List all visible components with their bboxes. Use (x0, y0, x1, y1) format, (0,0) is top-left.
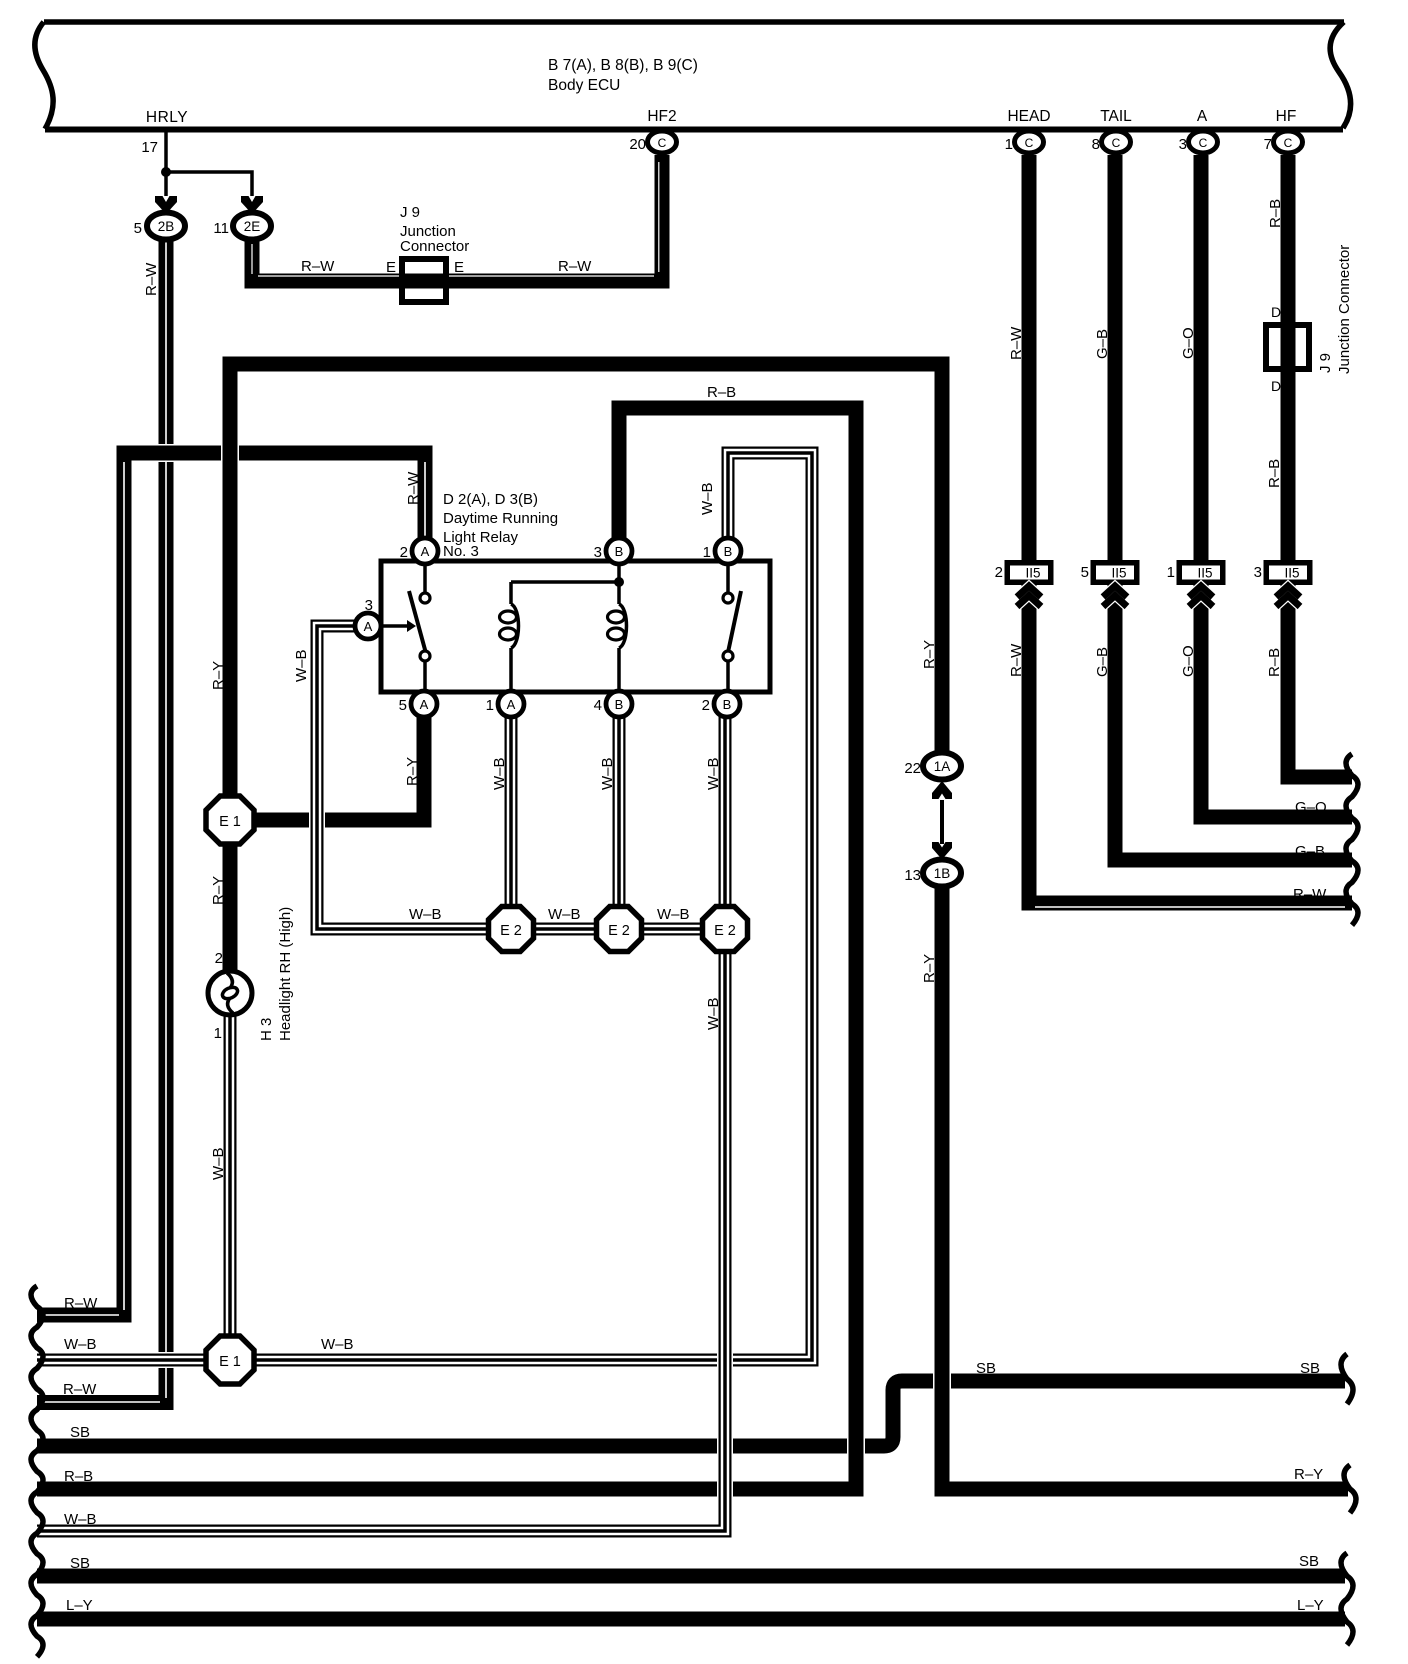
svg-text:G–B: G–B (1094, 647, 1111, 677)
svg-text:R–W: R–W (1293, 886, 1327, 903)
relay left switch wire to 5A (423, 660, 427, 690)
wire SB long bus with jog (37, 1381, 1345, 1446)
svg-text:TAIL: TAIL (1100, 108, 1132, 125)
relay pin 1B (715, 538, 741, 564)
svg-text:E 1: E 1 (219, 1354, 241, 1370)
svg-text:G–B: G–B (1094, 329, 1111, 359)
svg-text:1A: 1A (934, 759, 951, 774)
wire R-W relay pin 2A to far-left vertical (37, 453, 425, 1315)
wire R-Y relay pin 5A to E1 (252, 716, 424, 820)
wire W-B E2 down to left stub (37, 951, 725, 1531)
svg-text:8: 8 (1092, 136, 1100, 153)
svg-text:W–B: W–B (321, 1336, 354, 1353)
wire R-W HEAD lower to right stub (1029, 585, 1352, 903)
relay coil L2 (617, 582, 621, 604)
arrow into 1B (932, 842, 952, 860)
pin circle C at x=1288 (1274, 131, 1303, 153)
svg-text:1: 1 (486, 697, 494, 714)
svg-text:D 2(A), D 3(B): D 2(A), D 3(B) (443, 491, 538, 508)
svg-text:R–Y: R–Y (921, 954, 938, 983)
wire L-Y bottom full width (37, 1610, 1345, 1628)
svg-text:B: B (724, 544, 733, 559)
svg-text:R–W: R–W (301, 258, 335, 275)
junction connector J9 box (HF) (1263, 322, 1312, 372)
connector oval 2B (147, 213, 185, 240)
svg-text:SB: SB (70, 1555, 90, 1572)
relay left switch wire from 2A (423, 563, 427, 592)
arrow into 2B (155, 196, 177, 214)
svg-text:R–B: R–B (64, 1468, 93, 1485)
relay pin 4B (606, 691, 632, 717)
relay 3B interior wire (617, 563, 621, 582)
svg-text:17: 17 (141, 139, 158, 156)
svg-text:W–B: W–B (657, 906, 690, 923)
wire R-Y 1B to right stub (942, 880, 1348, 1489)
svg-text:R–B: R–B (1266, 459, 1283, 488)
svg-text:R–Y: R–Y (210, 876, 227, 905)
svg-text:E: E (454, 259, 464, 276)
svg-text:W–B: W–B (705, 757, 722, 790)
ground connector E1 (lower) (206, 1336, 254, 1384)
relay pin 2B (714, 691, 740, 717)
junction connector J9 box (399, 256, 449, 305)
arrow into II5 #1 (1017, 586, 1041, 597)
svg-text:3: 3 (1179, 136, 1187, 153)
svg-text:W–B: W–B (64, 1511, 97, 1528)
wire R-W from 2B down to left stub (37, 238, 166, 1403)
relay coil top link (511, 580, 619, 584)
svg-text:W–B: W–B (705, 997, 722, 1030)
connector oval 2E (233, 213, 271, 240)
svg-text:E 2: E 2 (714, 923, 736, 939)
svg-text:SB: SB (1300, 1360, 1320, 1377)
ground connector E1 (upper) (206, 796, 254, 844)
svg-text:J 9: J 9 (400, 204, 420, 221)
page edge squiggle right (SB) (1341, 1354, 1353, 1404)
svg-text:2E: 2E (244, 219, 261, 234)
svg-text:W–B: W–B (699, 482, 716, 515)
svg-text:B: B (723, 697, 732, 712)
wire R-W 2E to J9 to HF2 (252, 155, 662, 281)
wire W-B relay 2B to E2 (719, 716, 732, 907)
svg-text:A: A (364, 619, 373, 634)
relay pin 3B (606, 538, 632, 564)
svg-text:11: 11 (213, 220, 229, 237)
wire SB bottom full width (37, 1567, 1345, 1585)
wire HRLY pin 17 stub (164, 132, 168, 172)
wire R-Y top loop E1 to 1A (230, 364, 942, 818)
svg-text:D: D (1271, 378, 1281, 394)
connector II5 box #4 (1264, 560, 1313, 585)
svg-text:H 3: H 3 (258, 1018, 275, 1041)
arrow into II5 #2 (1103, 586, 1127, 597)
svg-text:SB: SB (70, 1424, 90, 1441)
svg-text:II5: II5 (1284, 566, 1299, 581)
svg-text:J 9: J 9 (1317, 353, 1334, 373)
svg-text:Junction Connector: Junction Connector (1336, 245, 1353, 374)
svg-text:R–W: R–W (143, 262, 160, 296)
svg-text:L–Y: L–Y (66, 1597, 93, 1614)
svg-text:E 2: E 2 (608, 923, 630, 939)
svg-text:HRLY: HRLY (146, 109, 188, 126)
svg-text:R–Y: R–Y (1294, 1466, 1323, 1483)
svg-text:II5: II5 (1197, 566, 1212, 581)
lamp H3 headlight RH high (208, 971, 252, 1015)
svg-text:3: 3 (365, 597, 373, 614)
svg-text:7: 7 (1264, 136, 1272, 153)
svg-text:II5: II5 (1111, 566, 1126, 581)
svg-text:5: 5 (399, 697, 407, 714)
pin circle C at x=1029 (1015, 131, 1044, 153)
connector II5 box #2 (1091, 560, 1140, 585)
svg-text:1: 1 (214, 1025, 222, 1042)
relay right switch wire to 2B (726, 660, 730, 690)
svg-text:22: 22 (904, 760, 921, 777)
page edge squiggle right (SB/L-Y) (1341, 1553, 1353, 1645)
page edge squiggle bottom-left (31, 1286, 43, 1657)
relay right switch blade (727, 591, 741, 657)
svg-text:B 7(A), B 8(B), B 9(C): B 7(A), B 8(B), B 9(C) (548, 57, 698, 74)
svg-text:A: A (420, 697, 429, 712)
relay right switch top contact (723, 593, 733, 603)
svg-text:1: 1 (703, 544, 711, 561)
svg-text:4: 4 (594, 697, 602, 714)
svg-text:G–O: G–O (1295, 799, 1327, 816)
svg-text:SB: SB (976, 1360, 996, 1377)
svg-text:R–W: R–W (1008, 326, 1025, 360)
svg-text:G–O: G–O (1180, 327, 1197, 359)
wire down to 2B arrow (164, 172, 168, 196)
svg-text:W–B: W–B (409, 906, 442, 923)
svg-text:W–B: W–B (548, 906, 581, 923)
svg-text:2: 2 (995, 564, 1003, 581)
wire link 1A-1B (940, 800, 944, 844)
wire R-Y E1 to H3 headlight (221, 840, 239, 972)
svg-text:W–B: W–B (64, 1336, 97, 1353)
svg-text:Connector: Connector (400, 238, 469, 255)
svg-text:HF: HF (1276, 108, 1297, 125)
wire G-B TAIL lower to right stub (1115, 585, 1352, 860)
relay left switch top contact (420, 593, 430, 603)
page edge squiggle right (R-Y) (1344, 1465, 1356, 1513)
svg-text:C: C (1112, 136, 1121, 150)
wire W-B relay 4B to E2 (613, 716, 626, 907)
svg-text:R–W: R–W (64, 1295, 98, 1312)
junction dot node HRLY (161, 167, 171, 177)
pin circle C at x=662 (648, 131, 677, 153)
relay left switch blade (409, 591, 427, 657)
svg-text:20: 20 (629, 136, 646, 153)
svg-text:5: 5 (1081, 564, 1089, 581)
svg-text:13: 13 (904, 867, 921, 884)
wire branch to 2E (166, 172, 252, 196)
svg-text:W–B: W–B (210, 1147, 227, 1180)
svg-text:G–O: G–O (1180, 645, 1197, 677)
relay pin 3A (355, 613, 381, 639)
relay pin 1A (498, 691, 524, 717)
wire W-B H3 to E1 ground (222, 1014, 238, 1338)
svg-text:Headlight RH (High): Headlight RH (High) (277, 907, 294, 1041)
svg-text:1B: 1B (934, 866, 951, 881)
svg-text:C: C (1199, 136, 1208, 150)
svg-text:2: 2 (702, 697, 710, 714)
relay junction dot coils (614, 577, 624, 587)
wire W-B relay 1A to E2 (505, 716, 518, 907)
wire R-B HF lower to right stub (1288, 585, 1352, 777)
svg-text:II5: II5 (1025, 566, 1040, 581)
svg-text:R–Y: R–Y (921, 640, 938, 669)
svg-text:HEAD: HEAD (1007, 108, 1050, 125)
wire R-W HEAD column upper (1020, 155, 1038, 562)
relay box Daytime Running Light Relay No.3 (381, 561, 770, 692)
svg-text:2B: 2B (158, 219, 175, 234)
connector II5 box #1 (1005, 560, 1054, 585)
svg-text:2: 2 (215, 950, 223, 967)
svg-text:3: 3 (594, 544, 602, 561)
svg-text:B: B (615, 544, 624, 559)
ground connector E2 (right) (703, 907, 748, 952)
svg-text:W–B: W–B (599, 757, 616, 790)
wire G-B TAIL column upper (1106, 155, 1124, 562)
arrow into II5 #3 (1189, 586, 1213, 597)
relay right switch bottom contact (723, 651, 733, 661)
svg-text:5: 5 (134, 220, 142, 237)
arrow into 2E (241, 196, 263, 214)
wire R-B relay 3B loop to left stub (37, 408, 856, 1489)
ground connector E2 (left) (489, 907, 534, 952)
svg-text:R–W: R–W (63, 1381, 97, 1398)
svg-text:C: C (1025, 136, 1034, 150)
svg-text:R–W: R–W (405, 471, 422, 505)
svg-text:1: 1 (1005, 136, 1013, 153)
wire W-B E2 to E2 (1) (511, 923, 619, 936)
svg-text:L–Y: L–Y (1297, 1597, 1324, 1614)
svg-text:R–W: R–W (558, 258, 592, 275)
relay 3A feed line (381, 624, 411, 628)
svg-text:R–B: R–B (1266, 648, 1283, 677)
svg-text:B: B (615, 697, 624, 712)
svg-text:3: 3 (1254, 564, 1262, 581)
wire G-O A column upper (1192, 155, 1210, 562)
wire R-B HF column upper (1279, 155, 1297, 562)
svg-text:No. 3: No. 3 (443, 543, 479, 560)
svg-text:E: E (386, 259, 396, 276)
svg-text:1: 1 (1167, 564, 1175, 581)
relay left switch bottom contact (420, 651, 430, 661)
svg-text:E 1: E 1 (219, 814, 241, 830)
svg-text:R–B: R–B (1267, 199, 1284, 228)
connector oval 1A (923, 753, 961, 780)
svg-text:R–Y: R–Y (404, 757, 421, 786)
svg-text:SB: SB (1299, 1553, 1319, 1570)
svg-text:Daytime Running: Daytime Running (443, 510, 558, 527)
relay pin 2A (412, 538, 438, 564)
Body ECU bus outline (44, 19, 1344, 25)
svg-text:2: 2 (400, 544, 408, 561)
relay right switch wire from 1B (726, 563, 730, 592)
svg-text:G–B: G–B (1295, 843, 1325, 860)
svg-text:W–B: W–B (293, 649, 310, 682)
svg-text:W–B: W–B (491, 757, 508, 790)
relay coil L1 (509, 582, 513, 604)
wire W-B relay 3A to E2 row (317, 626, 511, 929)
svg-text:C: C (658, 136, 667, 150)
svg-text:E 2: E 2 (500, 923, 522, 939)
arrow into 1A (932, 781, 952, 799)
page edge squiggle right (mid) (1346, 754, 1358, 925)
ground connector E2 (middle) (597, 907, 642, 952)
pin circle C at x=1203 (1189, 131, 1218, 153)
svg-text:Body ECU: Body ECU (548, 77, 620, 94)
svg-text:A: A (421, 544, 430, 559)
svg-text:A: A (1197, 108, 1208, 125)
svg-text:C: C (1284, 136, 1293, 150)
svg-text:HF2: HF2 (647, 108, 676, 125)
connector oval 1B (923, 860, 961, 887)
svg-text:R–B: R–B (707, 384, 736, 401)
wire G-O A lower to right stub (1201, 585, 1352, 817)
wire W-B relay 1B loop to E1 and left stub (37, 453, 812, 1360)
arrow into II5 #4 (1276, 586, 1300, 597)
svg-text:R–Y: R–Y (210, 661, 227, 690)
pin circle C at x=1116 (1102, 131, 1131, 153)
connector II5 box #3 (1177, 560, 1226, 585)
wire W-B E2 to E2 (2) (619, 923, 725, 936)
svg-text:R–W: R–W (1008, 643, 1025, 677)
relay pin 5A (411, 691, 437, 717)
svg-text:A: A (507, 697, 516, 712)
svg-text:D: D (1271, 304, 1281, 320)
